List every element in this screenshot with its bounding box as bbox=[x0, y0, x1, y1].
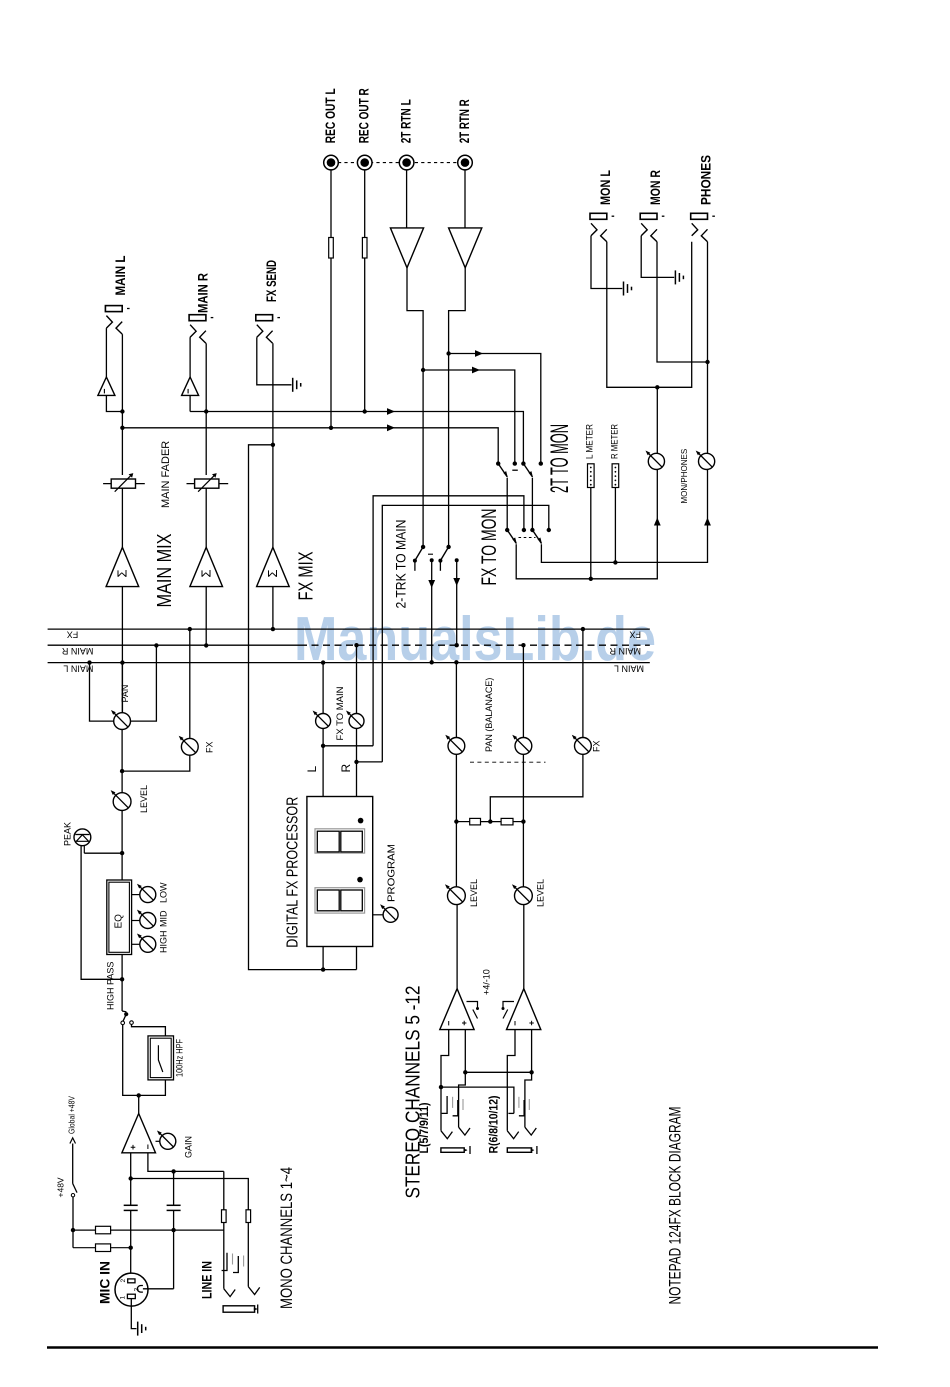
wire stereo normalling bridge L to R contact bbox=[441, 1087, 514, 1113]
wire FX processor R output to FX TO MON contact bbox=[382, 505, 549, 762]
fader MAIN FADER L bbox=[103, 473, 145, 492]
wire MAIN L jack to fader bbox=[121, 334, 123, 475]
wire FX send to digital fx processor input bbox=[249, 445, 357, 970]
op-amp mic preamp bbox=[122, 1114, 156, 1153]
amplifier 2T RTN L bbox=[390, 228, 423, 268]
potentiometer EQ LOW bbox=[137, 884, 156, 903]
svg-text:MIC IN: MIC IN bbox=[98, 1261, 113, 1304]
switch 2T TO MON left pole bbox=[496, 461, 500, 465]
resistor stereo FX sum R bbox=[513, 821, 523, 823]
wire FX SEND sleeve to ground bbox=[257, 337, 292, 385]
wire cap to XLR pin 2 bbox=[130, 1210, 132, 1279]
wire cap to XLR pin 3 bbox=[173, 1171, 175, 1205]
svg-text:REC OUT R: REC OUT R bbox=[357, 88, 372, 143]
block EQ bbox=[107, 880, 132, 955]
wire fader to sum amp MAIN R bbox=[205, 488, 207, 547]
wire FX processor L output to FX TO MON contact bbox=[373, 496, 524, 746]
potentiometer FX send mono bbox=[179, 736, 199, 756]
wire 2T RTN R amp output with branch to 2T TO MON bbox=[449, 268, 466, 547]
wire stereo normalling bridge L to R plus bbox=[465, 1071, 531, 1073]
jack FX SEND bbox=[256, 315, 280, 344]
svg-text:+4/-10: +4/-10 bbox=[482, 969, 492, 995]
wire 2T RTN L jack to amp bbox=[406, 170, 408, 228]
svg-text:LOW: LOW bbox=[159, 882, 169, 903]
resistor REC OUT R bbox=[362, 238, 367, 259]
svg-text:PHONES: PHONES bbox=[698, 155, 713, 205]
wire mono level to pan and fx pot bbox=[121, 730, 123, 793]
wire phones pot line bbox=[707, 242, 709, 454]
connector 2T RTN L phono bbox=[399, 155, 414, 170]
wire MAIN L bus bbox=[48, 662, 650, 664]
footer rule bbox=[47, 1346, 878, 1349]
ground MON R bbox=[675, 270, 683, 284]
potentiometer GAIN bbox=[156, 1140, 160, 1142]
wire line-in tip feed bbox=[131, 1179, 249, 1210]
svg-text:MON R: MON R bbox=[648, 170, 663, 205]
connector REC OUT L phono bbox=[324, 155, 339, 170]
wire MON R tip line to phones node bbox=[657, 242, 708, 362]
svg-text:FX TO MAIN: FX TO MAIN bbox=[335, 687, 345, 741]
ground FX SEND bbox=[293, 378, 301, 392]
svg-text:100Hz HPF: 100Hz HPF bbox=[175, 1039, 185, 1077]
svg-text:LEVEL: LEVEL bbox=[139, 785, 149, 813]
wire EQ to HIGH pot bbox=[132, 943, 140, 945]
wire stereo pan gang dashed bbox=[470, 761, 546, 763]
jack stereo L(5/7/9/11) bbox=[441, 1096, 470, 1154]
svg-text:2: 2 bbox=[120, 1279, 127, 1283]
svg-text:REC OUT L: REC OUT L bbox=[323, 88, 338, 143]
svg-text:DIGITAL FX PROCESSOR: DIGITAL FX PROCESSOR bbox=[285, 797, 302, 948]
switch 2T TO MON right pole bbox=[521, 461, 525, 465]
potentiometer stereo FX send bbox=[572, 735, 592, 755]
svg-text:EQ: EQ bbox=[114, 914, 125, 929]
svg-text:3: 3 bbox=[134, 1288, 141, 1292]
wire MON L tip line and monitor bus bbox=[607, 242, 692, 387]
wire FX TO MON gang link dashed bbox=[519, 537, 536, 539]
svg-text:2T RTN R: 2T RTN R bbox=[457, 99, 472, 143]
wire mono pan top to MAIN L junction bbox=[121, 663, 123, 713]
led PEAK bbox=[74, 829, 91, 853]
wire monitor pot output to bus bbox=[656, 387, 658, 453]
svg-text:MAIN L: MAIN L bbox=[113, 256, 128, 296]
svg-text:MON/PHONES: MON/PHONES bbox=[680, 449, 689, 504]
switch FX TO MON left pole bbox=[505, 528, 509, 532]
connector 2T RTN R phono bbox=[458, 155, 473, 170]
wire EQ to MID pot bbox=[132, 920, 140, 922]
potentiometer EQ MID bbox=[137, 910, 156, 929]
wire phantom resistor 2 to pin3 node bbox=[111, 1247, 131, 1249]
wire mic amp + input to cap bbox=[130, 1153, 132, 1206]
svg-text:PAN: PAN bbox=[120, 685, 130, 703]
wire normalling dashed link between phono connectors bbox=[338, 162, 458, 164]
potentiometer PHONES level bbox=[696, 450, 715, 469]
capacitor mic + input bbox=[124, 1205, 138, 1210]
jack MON L bbox=[590, 213, 614, 242]
wire 2T TO MON outputs to FX TO MON contacts bbox=[506, 478, 508, 530]
connector REC OUT R phono bbox=[357, 155, 372, 170]
svg-text:MAIN FADER: MAIN FADER bbox=[160, 441, 172, 508]
wire PROGRAM pot stub bbox=[373, 914, 383, 916]
jack MAIN L bbox=[105, 306, 129, 335]
wire MAIN R bus (dashed part) bbox=[300, 644, 650, 646]
wire phantom resistor 1 to pin2/line node bbox=[111, 1229, 224, 1231]
meter L METER bbox=[588, 464, 595, 488]
svg-text:HIGH: HIGH bbox=[159, 931, 169, 954]
op-amp sum MAIN MIX L bbox=[106, 547, 139, 586]
wire FX sum input to FX bus bbox=[272, 587, 274, 630]
wire stereo R amp plus to jack bbox=[531, 1030, 533, 1073]
svg-text:MAIN L: MAIN L bbox=[614, 664, 644, 674]
wire FX TO MON output L to monitor pot bbox=[516, 470, 657, 579]
wire stereo L amp to level pot bbox=[456, 905, 458, 989]
wire XLR pin3 to cap bbox=[143, 1288, 174, 1290]
wire REC OUT L feed bbox=[330, 170, 332, 428]
svg-text:GAIN: GAIN bbox=[184, 1136, 194, 1158]
svg-text:R(6/8/10/12): R(6/8/10/12) bbox=[487, 1095, 501, 1153]
potentiometer stereo LEVEL R bbox=[512, 884, 532, 904]
op-amp sum FX MIX bbox=[257, 547, 290, 586]
svg-text:FX: FX bbox=[67, 630, 79, 640]
wire MAIN L amp output to main line bbox=[105, 328, 107, 377]
op-amp MAIN L output buffer bbox=[98, 377, 115, 395]
wire sum amp R input to MAIN R bus bbox=[205, 587, 207, 646]
wire mono channel pan to MAIN R bus bbox=[131, 645, 157, 721]
wire line resistor to jack ring bbox=[223, 1223, 225, 1289]
wire HPF bypass to mic amp bbox=[123, 1025, 166, 1096]
wire stereo R amp to level pot bbox=[523, 905, 525, 989]
meter R METER bbox=[612, 464, 619, 488]
op-amp sum MAIN MIX R bbox=[190, 547, 223, 586]
resistor phantom 1 bbox=[73, 1229, 96, 1231]
potentiometer FX TO MAIN R bbox=[346, 711, 364, 729]
wire stereo R jack to amp minus bbox=[507, 1030, 515, 1131]
svg-text:PAN (BALANACE): PAN (BALANACE) bbox=[484, 678, 494, 752]
svg-text:1: 1 bbox=[119, 1296, 126, 1300]
switch FX TO MON right pole bbox=[530, 528, 534, 532]
wire 2T RTN R jack to amp bbox=[464, 170, 466, 228]
wire FX SEND jack to sum amp with processor tap bbox=[272, 343, 274, 547]
svg-text:Σ: Σ bbox=[198, 569, 213, 577]
svg-text:LEVEL: LEVEL bbox=[469, 879, 479, 907]
wire R METER tap bbox=[614, 488, 616, 563]
svg-text:MID: MID bbox=[159, 910, 169, 927]
wire MAIN R bus line to REC OUT R and 2T TO MON bbox=[190, 412, 523, 464]
svg-text:LINE IN: LINE IN bbox=[200, 1261, 215, 1299]
wire stereo pan R to MAIN R bus bbox=[522, 645, 524, 737]
wire 2T TO MON gang link bbox=[512, 469, 518, 471]
svg-text:2T TO MON: 2T TO MON bbox=[546, 424, 574, 493]
wire line-in ring feed bbox=[223, 1171, 225, 1209]
switch 2-TRK TO MAIN right bbox=[446, 545, 450, 549]
wire 2-TRK TO MAIN output R to MAIN R bus bbox=[455, 558, 459, 562]
potentiometer MON level bbox=[645, 450, 664, 469]
svg-text:MAIN R: MAIN R bbox=[196, 273, 211, 313]
resistor LINE IN ring bbox=[222, 1210, 227, 1223]
svg-text:HIGH PASS: HIGH PASS bbox=[106, 962, 116, 1010]
wire sum amp input to MAIN L bus and pan pot bbox=[121, 587, 123, 713]
wire L METER tap bbox=[590, 488, 592, 579]
wire stereo level L to resistor node bbox=[455, 754, 457, 887]
svg-text:+48V: +48V bbox=[56, 1177, 66, 1197]
wire mic amp - input network bbox=[148, 1153, 224, 1172]
display FX program upper digit bbox=[315, 818, 365, 853]
jack PHONES bbox=[691, 213, 715, 242]
wire fader to sum amp MAIN L bbox=[121, 488, 123, 547]
potentiometer FX TO MAIN L bbox=[313, 711, 331, 729]
svg-text:Σ: Σ bbox=[115, 569, 130, 577]
jack MAIN R bbox=[189, 315, 213, 344]
wire MON L sleeve to ground bbox=[591, 236, 622, 289]
wire FX processor L output bbox=[322, 746, 324, 797]
wire stereo pan L to MAIN L bus bbox=[455, 662, 457, 737]
potentiometer stereo PAN R bbox=[512, 735, 532, 755]
svg-text:MAIN R: MAIN R bbox=[61, 646, 93, 656]
wire MAIN R jack to fader bbox=[205, 343, 207, 475]
svg-text:FX: FX bbox=[592, 740, 602, 752]
wire EQ to LOW pot bbox=[132, 894, 140, 896]
wire MAIN R amp output to main line bbox=[189, 337, 191, 377]
svg-text:Global +48V: Global +48V bbox=[68, 1095, 77, 1134]
svg-text:2T RTN L: 2T RTN L bbox=[399, 99, 414, 143]
op-amp MAIN R output buffer bbox=[182, 377, 199, 395]
svg-text:NOTEPAD 124FX BLOCK DIAGRAM: NOTEPAD 124FX BLOCK DIAGRAM bbox=[666, 1107, 685, 1305]
wire FX TO MAIN R pot to MAIN R bus bbox=[356, 645, 358, 713]
svg-text:FX SEND: FX SEND bbox=[264, 260, 279, 302]
potentiometer stereo LEVEL L bbox=[445, 884, 465, 904]
potentiometer LEVEL mono bbox=[111, 790, 131, 810]
wire MON R sleeve to ground bbox=[641, 236, 674, 278]
wire MAIN L bus line to REC OUT L and 2T TO MON bbox=[122, 428, 498, 464]
wire 2-TRK TO MAIN output L to MAIN L bus bbox=[430, 558, 434, 562]
wire mic amp apex bbox=[138, 1095, 140, 1113]
resistor stereo FX sum L bbox=[456, 821, 469, 823]
svg-text:MON L: MON L bbox=[598, 170, 613, 205]
op-amp stereo R input bbox=[507, 989, 541, 1030]
switch +4/-10 gain select bbox=[467, 1002, 515, 1019]
switch 2-TRK TO MAIN left bbox=[421, 545, 425, 549]
wire mono channel pan to MAIN L bus bbox=[90, 663, 114, 722]
jack stereo R(6/8/10/12) bbox=[507, 1097, 537, 1154]
jack LINE IN bbox=[222, 1253, 260, 1314]
svg-text:ManualsLib.de: ManualsLib.de bbox=[294, 605, 656, 674]
svg-text:PROGRAM: PROGRAM bbox=[387, 844, 398, 902]
wire stereo L jack to amp minus bbox=[441, 1030, 449, 1131]
svg-text:R: R bbox=[339, 764, 353, 773]
resistor phantom 2 bbox=[73, 1247, 96, 1249]
wire stereo L jack to amp plus bbox=[459, 1030, 466, 1128]
wire line resistor to jack tip bbox=[247, 1223, 249, 1287]
svg-text:STEREO CHANNELS 5 -12: STEREO CHANNELS 5 -12 bbox=[403, 986, 425, 1199]
wire high pass to HPF block bbox=[132, 1024, 166, 1036]
svg-text:LEVEL: LEVEL bbox=[536, 879, 546, 907]
wire stereo FX pot to FX bus bbox=[582, 629, 584, 737]
wire XLR pin1 to ground bbox=[131, 1299, 136, 1329]
wire MAIN R bus (solid part) bbox=[48, 644, 300, 646]
svg-text:L: L bbox=[305, 766, 319, 773]
svg-text:R METER: R METER bbox=[610, 424, 620, 459]
resistor REC OUT L bbox=[329, 238, 334, 259]
amplifier 2T RTN R bbox=[449, 228, 482, 268]
wire EQ output to high pass switch bbox=[121, 955, 123, 1012]
wire stereo FX sum node to FX pot bbox=[481, 821, 502, 823]
wire FX TO MON output R to phones pot bbox=[541, 470, 707, 563]
svg-text:L METER: L METER bbox=[585, 424, 595, 459]
svg-text:2-TRK TO MAIN: 2-TRK TO MAIN bbox=[393, 520, 409, 609]
wire 2-TRK TO MAIN gang dash bbox=[428, 553, 433, 555]
potentiometer EQ HIGH bbox=[137, 933, 156, 952]
wire FX bus bbox=[48, 628, 650, 630]
svg-text:FX MIX: FX MIX bbox=[296, 552, 318, 601]
display FX program lower digit bbox=[315, 877, 365, 913]
block 100Hz HPF bbox=[148, 1036, 174, 1080]
wire PEAK led branch and EQ bypass rail bbox=[84, 852, 122, 854]
potentiometer PAN mono bbox=[111, 710, 131, 730]
jack MON R bbox=[640, 213, 664, 242]
wire REC OUT R feed bbox=[364, 170, 366, 412]
svg-text:FX TO MON: FX TO MON bbox=[478, 509, 501, 586]
switch HIGH PASS bbox=[121, 1011, 133, 1025]
wire mono level pot to EQ bbox=[121, 811, 123, 881]
op-amp stereo L input bbox=[440, 989, 474, 1030]
wire 2T RTN L amp output with branch to 2T TO MON bbox=[407, 268, 423, 547]
svg-text:Σ: Σ bbox=[265, 569, 280, 577]
svg-text:FX: FX bbox=[629, 630, 641, 640]
wire stereo level R to resistor node bbox=[522, 754, 524, 887]
svg-text:MAIN R: MAIN R bbox=[609, 646, 641, 656]
block DIGITAL FX PROCESSOR bbox=[307, 797, 373, 947]
ground MIC IN bbox=[138, 1322, 146, 1336]
potentiometer PROGRAM bbox=[380, 904, 398, 922]
connector MIC IN XLR bbox=[115, 1273, 148, 1306]
wire mono fx pot to FX bus bbox=[189, 629, 191, 738]
ground MON L bbox=[624, 282, 632, 296]
svg-text:FX: FX bbox=[205, 741, 215, 753]
wire FX TO MAIN L pot to MAIN L bus bbox=[322, 663, 324, 714]
svg-text:MAIN MIX: MAIN MIX bbox=[154, 534, 176, 608]
fader MAIN FADER R bbox=[187, 473, 229, 492]
capacitor mic - input bbox=[167, 1205, 181, 1210]
resistor LINE IN tip bbox=[246, 1210, 251, 1223]
wire FX processor R output bbox=[356, 762, 358, 797]
wire FX processor inputs bbox=[322, 947, 324, 970]
wire phantom power rail bbox=[70, 1138, 77, 1248]
svg-text:MONO CHANNELS 1~4: MONO CHANNELS 1~4 bbox=[278, 1167, 296, 1309]
potentiometer stereo PAN L bbox=[445, 735, 465, 755]
svg-text:PEAK: PEAK bbox=[63, 822, 73, 846]
